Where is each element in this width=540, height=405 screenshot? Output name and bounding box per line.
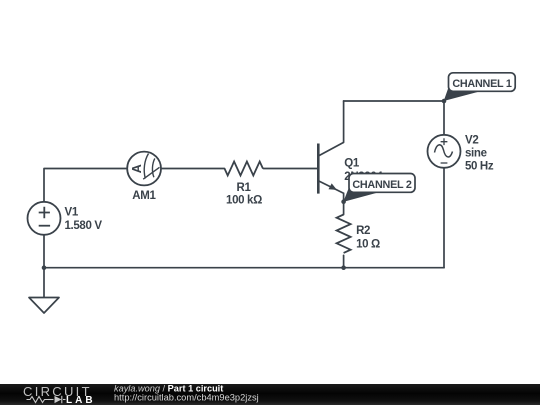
- wire V2 bottom to bottom rail: [443, 168, 445, 268]
- svg-text:Q1: Q1: [344, 158, 360, 170]
- wire V1 bottom to bottom rail: [43, 235, 45, 268]
- resistor R1: [225, 162, 263, 176]
- svg-text:CHANNEL 1: CHANNEL 1: [452, 78, 512, 90]
- wire AM1 to R1: [161, 168, 225, 170]
- svg-text:http://circuitlab.com/cb4m9e3p: http://circuitlab.com/cb4m9e3p2jzsj: [114, 393, 259, 403]
- svg-text:AM1: AM1: [132, 190, 156, 202]
- ammeter AM1: [127, 152, 161, 186]
- wire ground stub: [43, 268, 45, 298]
- svg-text:CHANNEL 2: CHANNEL 2: [352, 179, 412, 191]
- node CHANNEL 1 callout: [444, 73, 516, 101]
- svg-text:sine: sine: [465, 147, 487, 159]
- wire R2 to bottom rail: [343, 255, 345, 267]
- svg-text:R2: R2: [356, 225, 370, 237]
- svg-text:LAB: LAB: [66, 395, 96, 405]
- wire top rail node to V2 top: [443, 101, 445, 135]
- wire Q1 collector to top rail: [343, 101, 345, 142]
- transistor Q1: [318, 142, 343, 201]
- svg-text:50 Hz: 50 Hz: [465, 160, 494, 172]
- footer bar: [0, 384, 540, 405]
- node CHANNEL 2 callout: [343, 174, 415, 202]
- svg-text:R1: R1: [236, 182, 251, 194]
- svg-text:1.580 V: 1.580 V: [65, 220, 103, 232]
- node dot R2 bottom junction: [341, 265, 346, 270]
- wire Q1 emitter node to R2: [343, 202, 345, 215]
- node dot top rail junction: [442, 99, 447, 104]
- wire R1 to Q1 base: [263, 168, 318, 170]
- wire top rail: [344, 100, 444, 102]
- wire V1 top to AM1 (left rail): [44, 169, 127, 202]
- svg-text:A: A: [130, 164, 144, 173]
- svg-text:V2: V2: [465, 134, 478, 146]
- node dot emitter junction: [341, 199, 346, 204]
- wire bottom rail: [44, 267, 444, 269]
- resistor R2: [337, 215, 351, 253]
- voltage source V1: [28, 202, 61, 235]
- CircuitLab logo: [23, 384, 96, 405]
- ground: [29, 298, 59, 314]
- node dot bottom-left junction: [42, 265, 47, 270]
- voltage source V2: [428, 135, 461, 168]
- svg-text:10 Ω: 10 Ω: [356, 239, 380, 251]
- svg-text:100 kΩ: 100 kΩ: [226, 195, 262, 207]
- svg-text:V1: V1: [65, 207, 79, 219]
